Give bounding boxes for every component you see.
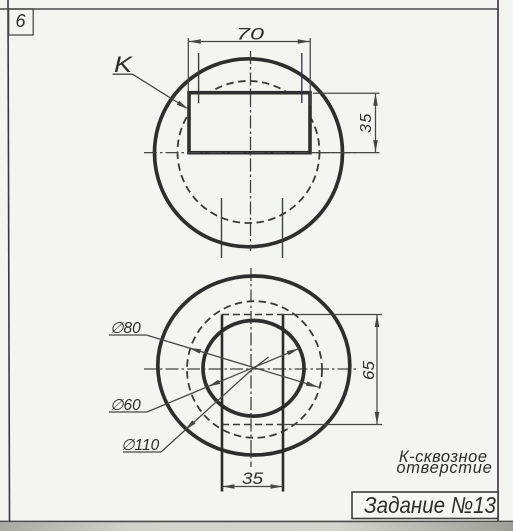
leader d80: near arrow on dashed circle [188, 348, 201, 354]
leader d60: leader line through center [147, 348, 299, 412]
leader d60: underline [109, 411, 147, 413]
bottom frame border [0, 521, 513, 523]
dimension 65: dimension line [376, 315, 378, 425]
hidden circle diam 80 plan view (dashed) [187, 301, 322, 438]
leader d110: overshoot curl at center [253, 357, 269, 369]
leader d80: leader line through center [146, 335, 318, 387]
dimension 35 plan: dimension line [222, 486, 283, 488]
sphere outline front view, diam 110 [155, 59, 343, 247]
label K leader line [133, 74, 187, 108]
hole rectangle front view 70x35 [189, 93, 310, 153]
svg-text:K: K [114, 52, 134, 77]
leader d60: near arrow on hole circle [208, 380, 220, 387]
leader d110: arrow on outer circle [185, 420, 196, 430]
page number box [9, 9, 34, 35]
projection line of slot left, bottom of front view [221, 198, 223, 258]
svg-text:35: 35 [242, 469, 264, 488]
hidden hole edge top (dashed) [222, 314, 283, 316]
svg-text:6: 6 [16, 11, 27, 31]
projection line of d60 left, front view [198, 53, 200, 103]
horizontal center line top view [144, 152, 356, 154]
horizontal center line plan view [144, 368, 357, 370]
dimension 35 front: extension line bottom [312, 152, 380, 154]
leader d80: underline [109, 334, 146, 336]
hidden hole edge bottom (dashed) [222, 424, 283, 426]
left frame border [8, 0, 10, 521]
dimension 35 front: bottom arrow [373, 140, 378, 153]
dimension 70: extension line left [187, 38, 189, 105]
vertical center line top view [250, 51, 252, 251]
title box [352, 492, 498, 519]
dimension 65: bottom arrow [375, 412, 380, 425]
dimension 35 front: extension line top [313, 92, 380, 94]
hidden circle diam 80 front view (dashed) [178, 81, 320, 223]
label K arrowhead [177, 101, 189, 110]
label K underline [113, 73, 133, 75]
projection line of d60 right, front view [301, 53, 303, 103]
dimension 70: extension line right [309, 38, 311, 105]
dimension 35 front: dimension line [375, 93, 377, 152]
top frame border [0, 8, 498, 10]
leader d60: far arrow on hole circle [287, 348, 299, 355]
svg-text:35: 35 [358, 112, 375, 133]
sphere outline plan view, diam 110 [158, 276, 350, 455]
vertical center line plan view [250, 268, 252, 467]
svg-text:65: 65 [361, 361, 378, 380]
dimension 65: extension line top [283, 314, 382, 316]
dimension 35 plan: right arrow [271, 484, 284, 489]
dimension 70: left arrow [188, 39, 201, 44]
svg-text:70: 70 [236, 25, 265, 44]
slot edge right plan view [282, 315, 285, 492]
dimension 70: right arrow [298, 39, 311, 44]
leader d110: leader line to center [161, 369, 253, 452]
dimension 65: top arrow [375, 315, 380, 328]
svg-text:отверстие: отверстие [396, 459, 492, 477]
slot edge left plan view [221, 315, 224, 492]
dimension 65: extension line bottom [283, 424, 382, 426]
leader d80: far arrow on dashed circle [306, 381, 319, 387]
dimension 70: dimension line [188, 41, 310, 43]
projection line of slot right, bottom of front view [282, 198, 284, 258]
hole circle diam 60 plan view [203, 321, 304, 417]
dimension 35 front: top arrow [373, 93, 378, 106]
leader d110: underline [123, 451, 161, 453]
dimension 35 plan: left arrow [222, 484, 235, 489]
svg-text:Задание №13: Задание №13 [364, 492, 496, 518]
right frame border [497, 0, 499, 521]
